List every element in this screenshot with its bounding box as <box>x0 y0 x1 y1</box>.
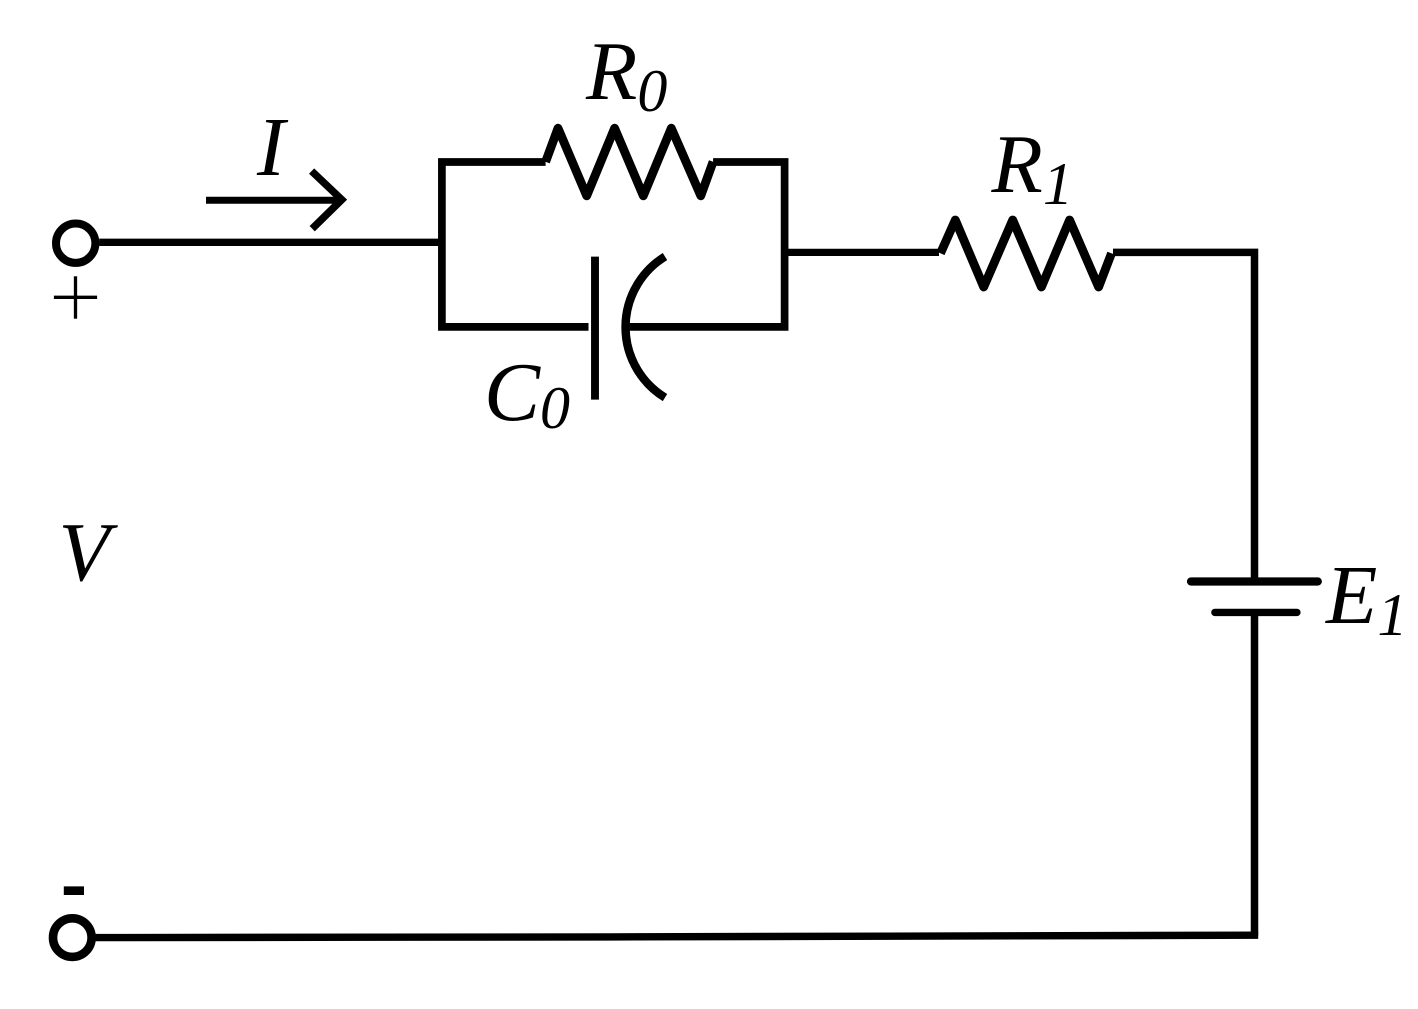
wire bottom (right corner to negative terminal) <box>96 935 1259 937</box>
capacitor C0 (straight plate) <box>591 257 599 400</box>
label I <box>257 106 285 190</box>
wire from battery down to bottom-right corner <box>1251 612 1259 935</box>
resistor R1 (zigzag) <box>941 220 1112 287</box>
wire parallel-box right branch (top-right, right edge, bottom-right segments) <box>627 162 785 327</box>
capacitor C0 (curved plate) <box>626 257 665 398</box>
label C0 <box>484 351 570 435</box>
plus sign <box>54 276 97 318</box>
wire parallel-box left branch (left edge, top-left and bottom-left segments) <box>442 162 589 327</box>
resistor R0 (zigzag in top branch) <box>546 128 714 196</box>
battery E1 (short plate) <box>1215 609 1297 616</box>
minus sign <box>64 886 84 895</box>
wire top-left (terminal to parallel box) <box>99 239 445 246</box>
label E1 <box>1326 554 1407 638</box>
label R1 <box>992 123 1073 207</box>
terminal minus (bottom-left open circle) <box>53 918 92 957</box>
battery E1 (long plate) <box>1191 577 1318 585</box>
current arrow I <box>206 171 342 229</box>
wire from box to R1 <box>785 249 939 256</box>
wire from R1 to top-right corner and down to battery <box>1113 252 1255 577</box>
label R0 <box>586 30 667 114</box>
terminal plus (top-left open circle) <box>56 224 95 263</box>
label V <box>59 511 110 595</box>
